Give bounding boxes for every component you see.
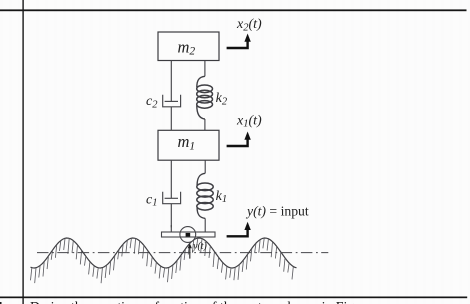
svg-text:x2(t): x2(t) bbox=[236, 17, 262, 33]
svg-text:y(t): y(t) bbox=[192, 241, 208, 252]
svg-text:x1(t): x1(t) bbox=[236, 113, 262, 129]
svg-text:y(t) = input: y(t) = input bbox=[245, 203, 309, 219]
svg-text:k1: k1 bbox=[216, 189, 227, 205]
svg-text:c2: c2 bbox=[146, 94, 158, 110]
svg-text:c1: c1 bbox=[146, 192, 157, 208]
svg-text:Derive the equations of motion: Derive the equations of motion of the sy… bbox=[30, 299, 358, 304]
svg-text:k2: k2 bbox=[216, 91, 228, 107]
